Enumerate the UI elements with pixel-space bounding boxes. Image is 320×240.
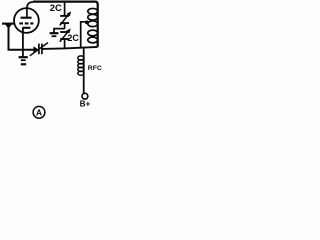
svg-text:RFC: RFC (88, 65, 102, 72)
svg-text:2C: 2C (67, 33, 79, 43)
svg-text:B+: B+ (80, 99, 91, 108)
svg-text:2C: 2C (50, 2, 62, 13)
svg-text:A: A (36, 107, 42, 117)
